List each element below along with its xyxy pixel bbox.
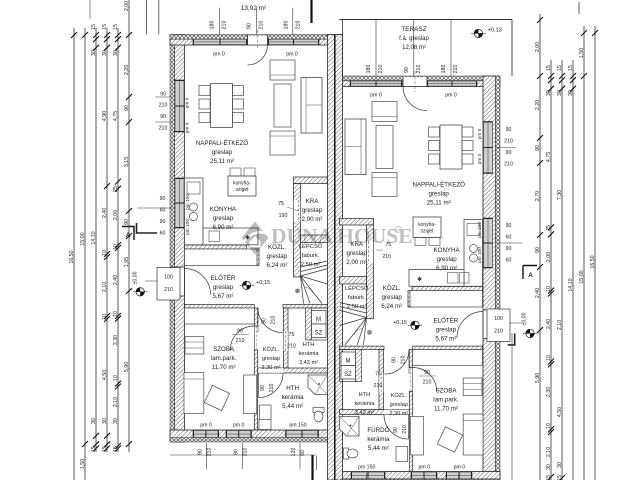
svg-text:faburk.: faburk. [302,253,320,259]
partition stub right-unit [408,291,412,308]
svg-text:kerámia: kerámia [299,351,320,357]
svg-text:210: 210 [259,21,265,30]
svg-text:10: 10 [546,355,552,361]
dining table left-unit [211,84,233,128]
svg-text:15: 15 [113,446,119,452]
svg-text:ELŐTÉR: ELŐTÉR [211,275,236,282]
kitchen partition wall left-unit [185,245,247,249]
left unit exterior top wall [170,39,343,45]
svg-text:90: 90 [392,357,398,363]
svg-text:90: 90 [506,246,512,252]
svg-text:2,10: 2,10 [102,282,108,292]
shower right-unit [340,417,360,437]
dims right-wall windows [496,147,516,149]
svg-text:pm 0: pm 0 [185,97,191,108]
svg-text:2,00: 2,00 [124,1,130,11]
svg-text:210: 210 [402,425,408,434]
terrace right-unit outline [340,19,513,21]
svg-text:HTH: HTH [286,385,299,392]
rug left-unit szoba [204,385,229,410]
dims top-wall left-unit [219,8,221,35]
desk right-unit szoba [410,417,423,456]
right unit exterior bottom wall [332,472,500,480]
svg-text:KRA: KRA [306,198,320,205]
svg-text:210: 210 [207,448,213,457]
svg-text:greslap: greslap [302,207,323,214]
svg-text:2,10: 2,10 [113,397,119,407]
svg-text:kerámia: kerámia [282,394,305,401]
door right-unit top-wall 90/210 with arc [403,77,427,86]
entrance dim box left-unit 100/210 [157,268,180,301]
kitchen counter right-unit [464,220,483,287]
svg-text:+0,13: +0,13 [488,28,502,34]
svg-text:greslap: greslap [390,402,408,408]
svg-text:+0,15: +0,15 [393,320,407,326]
svg-text:±0,00: ±0,00 [133,271,139,284]
svg-text:4,75: 4,75 [113,111,119,121]
svg-text:✱: ✱ [417,276,422,283]
toilet left-unit bath [313,408,324,413]
svg-text:2,30 m²: 2,30 m² [389,411,408,417]
svg-text:pm 0: pm 0 [445,93,457,99]
svg-text:KÖZL.: KÖZL. [263,346,280,353]
svg-text:210: 210 [243,448,249,457]
svg-text:30: 30 [102,50,108,56]
svg-text:210: 210 [159,126,168,132]
svg-text:11,70 m²: 11,70 m² [212,364,236,371]
dryer SZ box right-unit [341,366,356,380]
svg-text:15: 15 [546,65,552,71]
svg-text:30: 30 [113,50,119,56]
washer niche right-unit [340,350,358,382]
svg-text:15,00: 15,00 [579,270,585,283]
svg-text:90: 90 [160,196,166,202]
gutter line right side [511,333,513,480]
svg-text:75: 75 [278,201,284,207]
sideboard box left-unit eloter [185,249,258,266]
window left-unit top-wall 180/210 (left) [193,39,247,44]
svg-text:210: 210 [401,356,407,365]
svg-text:210: 210 [236,338,245,344]
kitchen windows right-unit right-wall 2x90/60 [484,218,493,268]
svg-text:75: 75 [289,332,295,338]
entrance dim box right-unit 100/210 [487,309,510,342]
KRA left wall left-unit [294,184,301,278]
svg-text:15: 15 [113,24,119,30]
svg-text:2,40: 2,40 [102,208,108,218]
svg-text:pm 0: pm 0 [213,52,225,58]
svg-text:KONYHA: KONYHA [434,247,461,254]
windows left-unit left-wall 2x90/210 [175,80,184,132]
svg-text:60: 60 [506,235,512,241]
svg-text:14,10: 14,10 [91,231,97,244]
svg-text:pm 150: pm 150 [358,465,375,471]
svg-text:90: 90 [234,449,240,455]
svg-text:5,44 m²: 5,44 m² [282,403,303,410]
svg-text:2,20: 2,20 [124,65,130,75]
svg-text:60: 60 [160,208,166,214]
KRA top wall left-unit [294,177,328,184]
window right-unit bottom-wall (c) [446,472,472,479]
svg-text:KONYHA: KONYHA [210,206,237,213]
party wall between units [328,35,343,480]
left unit exterior left wall [175,35,185,443]
door hall-to-corridor right-unit 90/210 [385,350,410,375]
svg-text:90: 90 [237,329,243,335]
KRA bottom wall right-unit [340,277,367,285]
svg-text:210: 210 [504,139,513,145]
svg-text:greslap: greslap [429,191,450,198]
elevation symbol kozl right +0,15 [411,321,419,329]
svg-text:5,90: 5,90 [535,373,541,383]
dims top-wall right-unit [375,20,377,77]
partition stub left-unit [255,249,259,266]
rug right-unit szoba [437,427,462,452]
svg-text:2,00: 2,00 [113,210,119,220]
svg-text:100: 100 [494,316,503,322]
door left-unit top-wall 90/210 with arc [248,36,268,45]
svg-text:15,00: 15,00 [80,232,86,245]
svg-text:SZOBA: SZOBA [213,346,235,353]
svg-text:NAPPALI-ÉTKEZŐ: NAPPALI-ÉTKEZŐ [196,140,249,147]
svg-text:30: 30 [568,90,574,96]
svg-text:210: 210 [374,383,383,389]
armchair left-unit (top) [270,60,295,80]
svg-text:pm 0: pm 0 [233,423,245,429]
section stub bottom [311,455,313,480]
kitchen island right-unit konyha-sziget [413,217,441,238]
svg-text:sziget: sziget [420,229,434,235]
svg-text:greslap: greslap [212,149,233,156]
svg-text:30: 30 [113,418,119,424]
svg-text:210: 210 [287,344,296,350]
svg-text:4,50: 4,50 [557,407,563,417]
svg-text:greslap: greslap [436,327,457,334]
svg-text:210: 210 [494,329,503,335]
svg-text:pm 0: pm 0 [185,122,191,133]
svg-text:15: 15 [546,475,552,480]
svg-text:pm 0: pm 0 [477,128,483,139]
dim chain R4 x573 (14,10) [572,60,574,480]
bath row wall left-unit [258,368,328,373]
svg-text:±0,00: ±0,00 [522,312,528,325]
svg-text:2,00 m²: 2,00 m² [346,259,367,266]
svg-text:DUNA HOUSE: DUNA HOUSE [271,224,413,248]
window right-unit top-wall 180/210 (left) [350,81,402,86]
svg-text:10: 10 [102,314,108,320]
sideboard box right-unit eloter [410,291,483,308]
svg-text:2,30: 2,30 [113,335,119,345]
svg-text:pm 0: pm 0 [454,465,466,471]
svg-text:1,50: 1,50 [80,459,86,469]
szoba-kozl wall right-unit [409,350,412,368]
svg-text:2,00 m²: 2,00 m² [302,216,323,223]
toilet right-unit bath [344,448,349,459]
svg-text:210: 210 [164,287,173,293]
svg-text:sziget: sziget [235,187,249,193]
elevation symbol left entrance [136,288,144,296]
window right-unit bottom-wall (a) [351,472,385,479]
svg-text:konyha-: konyha- [418,222,436,228]
svg-text:greslap: greslap [213,284,234,291]
bottom dim stubs right-unit [423,473,425,480]
svg-text:2,40: 2,40 [546,319,552,329]
right unit exterior top wall [332,81,500,87]
svg-text:120: 120 [291,448,297,457]
svg-text:90: 90 [506,150,512,156]
svg-text:A: A [528,272,533,279]
wardrobe left-unit szoba [185,337,204,355]
svg-text:6,90 m²: 6,90 m² [213,224,234,231]
svg-text:10: 10 [546,423,552,429]
dims right-wall kitchen windows [496,242,522,244]
svg-text:30: 30 [557,462,563,468]
svg-text:16,50: 16,50 [590,255,596,268]
armchair right-unit (top) [372,102,397,122]
svg-text:100: 100 [164,275,173,281]
door corridor-to-szoba right-unit 90/210 [413,368,437,392]
svg-text:10: 10 [113,375,119,381]
svg-text:5,67 m²: 5,67 m² [435,336,456,343]
svg-text:3,43 m²: 3,43 m² [299,360,318,366]
sofa right-unit [345,119,366,175]
svg-text:30: 30 [91,418,97,424]
washer M box left-unit [312,311,327,325]
shower left-unit [308,375,328,395]
svg-text:90: 90 [124,219,130,225]
door corridor-to-szoba left-unit 90/210 [230,326,254,350]
svg-text:2,50 m²: 2,50 m² [301,262,321,268]
svg-text:90: 90 [424,370,430,376]
svg-text:+0,15: +0,15 [256,280,270,286]
dim chain R5 x584 (1,50 / 15,00) [583,26,585,480]
dim chain R2 x551 [550,60,552,480]
dim chain R6 x595 (16,50) [594,26,596,480]
dim chain L1 x74 (16,50) [73,28,75,480]
svg-text:10: 10 [113,244,119,250]
svg-text:6,24 m²: 6,24 m² [267,262,288,269]
dim chain L3 x96 (14,10) [95,28,97,452]
svg-text:15: 15 [568,65,574,71]
svg-text:180: 180 [210,21,216,30]
svg-text:30: 30 [102,418,108,424]
svg-text:210: 210 [423,380,432,386]
svg-text:2,00: 2,00 [546,252,552,262]
dims left-wall windows [155,96,172,98]
svg-text:1,95: 1,95 [124,257,130,267]
wardrobe right-unit szoba [463,378,482,396]
bed right-unit szoba [463,414,483,455]
svg-text:M: M [316,317,321,323]
sofa left-unit [301,78,322,134]
svg-text:210: 210 [222,21,228,30]
svg-text:210: 210 [269,384,275,393]
svg-text:6,24 m²: 6,24 m² [381,303,402,310]
svg-text:2,20: 2,20 [535,100,541,110]
svg-text:90: 90 [198,449,204,455]
watermark duna house logo [242,222,413,255]
svg-text:15: 15 [557,475,563,480]
stair right-unit (winder treads) [340,310,367,345]
KRA right wall right-unit [367,225,374,319]
kitchen windows left-unit left-wall 2x90/60 [175,178,184,228]
terrace left-unit edge lines [146,0,148,35]
svg-text:30: 30 [91,50,97,56]
svg-text:pm 150: pm 150 [289,423,306,429]
svg-text:kerámia: kerámia [367,436,390,443]
dims left-wall kitchen windows [137,207,172,209]
reference line top-left [89,0,91,19]
kozl-hth wall left-unit [284,308,289,368]
svg-text:180: 180 [441,65,447,74]
svg-text:KÖZL.: KÖZL. [391,392,408,399]
svg-text:30: 30 [546,90,552,96]
svg-text:90: 90 [535,247,541,253]
section mark A right [523,266,537,280]
kitchen counter left-unit [185,178,204,245]
svg-text:2,10: 2,10 [557,320,563,330]
window left-unit top-wall 180/210 (right) [268,39,319,44]
svg-text:210: 210 [271,316,277,325]
coffee table right-unit [376,126,393,169]
svg-text:greslap: greslap [436,256,457,263]
svg-text:konyha-: konyha- [233,181,251,187]
svg-text:30: 30 [546,464,552,470]
svg-text:4,50: 4,50 [102,370,108,380]
svg-text:10: 10 [113,311,119,317]
svg-text:2,70: 2,70 [535,191,541,201]
svg-text:90: 90 [160,92,166,98]
svg-text:90: 90 [124,105,130,111]
svg-text:greslap: greslap [267,253,288,260]
svg-text:60: 60 [506,258,512,264]
svg-text:4,90: 4,90 [102,111,108,121]
step bracket left entrance [137,223,158,233]
svg-text:90: 90 [247,23,253,29]
svg-text:90: 90 [404,67,410,73]
svg-text:M: M [346,359,351,365]
dim chain L5 x118 [117,28,119,452]
svg-text:lam.park.: lam.park. [433,397,459,404]
section mark A left [122,227,134,241]
svg-text:3,43 m²: 3,43 m² [355,410,374,416]
svg-text:1,50: 1,50 [579,48,585,58]
svg-text:60: 60 [160,231,166,237]
svg-text:14,10: 14,10 [568,278,574,291]
svg-text:11,70 m²: 11,70 m² [434,406,458,413]
svg-text:90: 90 [535,145,541,151]
dim chain L4 x107 [106,28,108,452]
window left-unit bottom-wall 90/210 (b) [226,431,252,438]
svg-text:90: 90 [262,318,268,324]
elevation symbol eloter left +0,15 [242,281,250,289]
window right-unit bottom-wall (b) [411,472,437,479]
svg-text:25,11 m²: 25,11 m² [427,200,451,207]
svg-text:25: 25 [113,186,119,192]
dim chain L6 x129 (room dims) [128,0,130,452]
section stub top [310,0,312,23]
stair left-unit (winder treads) [301,269,328,304]
svg-text:90: 90 [506,127,512,133]
hall row wall right-unit [340,346,385,349]
svg-text:NAPPALI-ÉTKEZŐ: NAPPALI-ÉTKEZŐ [412,182,465,189]
svg-text:2,40: 2,40 [535,288,541,298]
door to bath right-unit 90/210 [384,415,409,440]
door hall-to-corridor left-unit 90/210 [258,308,283,333]
window left-unit bottom-wall 120/60 [286,431,319,438]
svg-text:2,10: 2,10 [546,447,552,457]
dryer SZ box left-unit [312,324,327,338]
svg-text:greslap: greslap [213,215,234,222]
svg-text:90: 90 [393,427,399,433]
coffee table left-unit [274,84,291,127]
svg-text:HTH: HTH [303,342,315,348]
door to bath left-unit 90/210 [259,373,284,398]
svg-text:7,30: 7,30 [557,190,563,200]
kitchen partition wall right-unit [412,287,483,291]
closet box left-unit szoba [185,308,256,324]
svg-text:ELŐTÉR: ELŐTÉR [434,318,459,325]
svg-text:75: 75 [375,372,381,378]
svg-text:210: 210 [378,65,384,74]
svg-text:180: 180 [283,21,289,30]
step bracket right entrance [508,333,515,345]
dashed ref line top right [578,2,580,14]
svg-text:210: 210 [416,65,422,74]
svg-text:16,50: 16,50 [69,250,75,263]
svg-text:greslap: greslap [382,294,403,301]
window left-unit bottom-wall 90/210 (a) [193,431,219,438]
svg-text:pm 100: pm 100 [185,194,191,210]
svg-text:30: 30 [557,90,563,96]
svg-text:15: 15 [102,24,108,30]
svg-text:15: 15 [91,24,97,30]
dining table right-unit [440,125,462,169]
hall row wall left-unit [185,305,255,308]
szoba-kozl wall left-unit [254,308,257,326]
svg-text:pm 0: pm 0 [200,423,212,429]
svg-text:15: 15 [91,446,97,452]
svg-text:60: 60 [300,450,306,456]
armchair left-unit (bottom) [270,131,295,155]
svg-text:pm 0: pm 0 [419,465,431,471]
svg-text:210: 210 [504,162,513,168]
svg-text:SZOBA: SZOBA [436,388,458,395]
closet box right-unit szoba [412,350,483,366]
svg-text:pm 100: pm 100 [477,222,483,238]
svg-text:HTH: HTH [359,392,371,398]
svg-text:KÖZL.: KÖZL. [383,285,401,292]
left unit exterior bottom wall [170,430,343,438]
KRA bottom wall left-unit [301,235,328,243]
svg-text:180: 180 [366,65,372,74]
svg-text:15: 15 [102,446,108,452]
svg-text:5,90: 5,90 [124,362,130,372]
svg-text:kerámia: kerámia [354,401,375,407]
washer niche left-unit [310,308,328,340]
windows right-unit right-wall 2x90/210 [484,122,493,174]
svg-text:2,30 m²: 2,30 m² [262,365,281,371]
bed left-unit szoba [184,373,204,414]
cabinet left-unit szoba-bottom [259,420,271,430]
svg-text:210: 210 [453,65,459,74]
svg-text:210: 210 [382,254,391,260]
right unit exterior right wall [483,76,496,480]
svg-text:90: 90 [160,114,166,120]
svg-text:greslap: greslap [262,356,280,362]
svg-text:2,40: 2,40 [113,275,119,285]
svg-text:210: 210 [295,21,301,30]
